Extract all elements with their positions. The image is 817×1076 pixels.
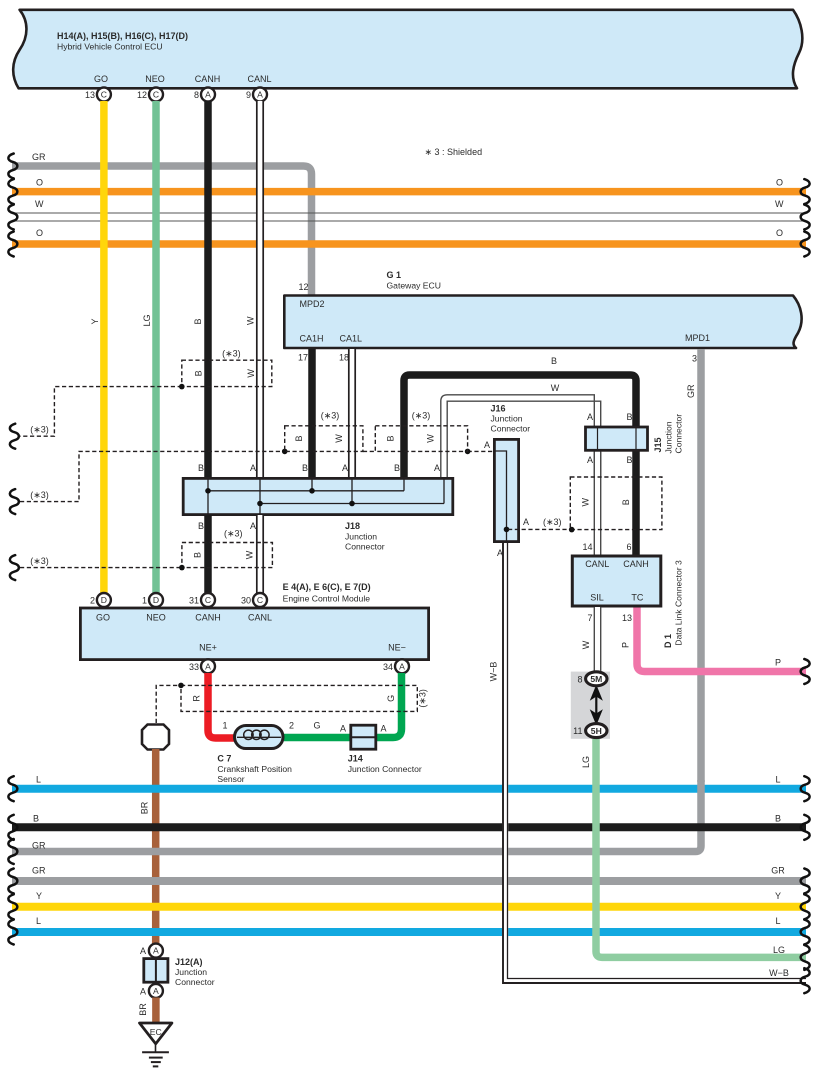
wire B bus: [12, 823, 806, 831]
shield box 2 (CA1H/CA1L): [285, 426, 363, 452]
svg-text:O: O: [776, 228, 783, 238]
J18 junction connector box: [183, 478, 453, 514]
svg-text:GO: GO: [94, 74, 108, 84]
svg-text:(∗3): (∗3): [30, 425, 49, 435]
svg-text:B: B: [394, 463, 400, 473]
svg-text:C: C: [101, 90, 107, 100]
svg-text:B: B: [621, 499, 631, 505]
svg-text:A: A: [257, 90, 263, 100]
pin 9 connector A: [246, 88, 267, 102]
svg-text:A: A: [380, 724, 386, 734]
junction dot J18 B1: [205, 488, 211, 494]
svg-text:B: B: [626, 412, 632, 422]
svg-text:1: 1: [222, 721, 227, 731]
svg-text:Junction: Junction: [345, 532, 377, 542]
svg-text:E 4(A), E 6(C), E 7(D): E 4(A), E 6(C), E 7(D): [283, 582, 371, 592]
svg-text:Junction: Junction: [175, 967, 207, 977]
svg-text:7: 7: [587, 613, 592, 623]
svg-text:EC: EC: [150, 1027, 162, 1037]
svg-text:L: L: [36, 916, 41, 926]
D1 Data Link Connector 3 box: [572, 556, 661, 606]
svg-text:A: A: [205, 90, 211, 100]
svg-text:Y: Y: [775, 891, 781, 901]
shield box 6 (R/G sensor pair): [181, 685, 417, 711]
svg-text:13: 13: [622, 613, 632, 623]
J12(A) junction connector box: [144, 959, 168, 983]
crankshaft position sensor C7 (coil): [235, 726, 284, 749]
pin 33 connector A: [189, 659, 215, 673]
junction dot J18 A1: [257, 501, 263, 507]
svg-text:C: C: [257, 595, 263, 605]
svg-text:R: R: [192, 695, 202, 702]
svg-text:W: W: [551, 383, 560, 393]
svg-text:B: B: [626, 455, 632, 465]
break O right: [801, 179, 810, 204]
svg-text:5M: 5M: [590, 674, 602, 684]
svg-text:Data Link Connector 3: Data Link Connector 3: [674, 560, 684, 646]
wire G green sensor to J14 to NE-: [284, 673, 402, 738]
svg-text:C: C: [153, 90, 159, 100]
svg-text:G 1: G 1: [387, 270, 402, 280]
svg-text:CANL: CANL: [247, 74, 271, 84]
junction dot J18 A2: [349, 501, 355, 507]
svg-text:G: G: [386, 695, 396, 702]
svg-text:(∗3): (∗3): [30, 556, 49, 566]
connector 5H: [573, 724, 607, 738]
svg-text:B: B: [193, 370, 203, 376]
svg-text:G: G: [313, 721, 320, 731]
wire GR MPD1 gray elbow into GR bus: [12, 780, 701, 852]
pin 31 connector C: [189, 593, 215, 607]
J14 junction connector box: [351, 725, 376, 749]
svg-text:Junction: Junction: [664, 421, 674, 453]
svg-text:Y: Y: [90, 318, 100, 324]
svg-text:CANH: CANH: [195, 74, 221, 84]
svg-text:W: W: [580, 497, 590, 506]
svg-text:A: A: [523, 517, 529, 527]
svg-text:A: A: [587, 455, 593, 465]
svg-text:D: D: [101, 595, 107, 605]
svg-text:(∗3): (∗3): [412, 410, 431, 420]
svg-text:A: A: [153, 946, 159, 956]
wire CA1L white vertical: [349, 349, 355, 478]
svg-text:BR: BR: [140, 801, 150, 814]
svg-text:W: W: [581, 640, 591, 649]
svg-text:14: 14: [582, 542, 592, 552]
svg-text:J15: J15: [653, 437, 663, 452]
svg-text:(∗3): (∗3): [321, 410, 340, 420]
shield wire 2 dashed (row y451): [20, 451, 494, 501]
arrows between 5M and 5H: [591, 686, 602, 724]
wire W bus (white pair): [12, 213, 806, 221]
svg-text:J12(A): J12(A): [175, 957, 203, 967]
J16 junction connector box: [493, 439, 519, 543]
svg-text:B: B: [551, 356, 557, 366]
wire GR bus to Gateway MPD2 (gray elbow): [12, 166, 312, 295]
wire R red NE+ to sensor: [208, 673, 234, 738]
svg-text:A: A: [140, 986, 146, 996]
svg-text:31: 31: [189, 596, 199, 606]
svg-text:CANH: CANH: [623, 559, 649, 569]
svg-text:Connector: Connector: [491, 424, 531, 434]
svg-text:Sensor: Sensor: [217, 774, 244, 784]
svg-text:TC: TC: [631, 593, 643, 603]
svg-text:GR: GR: [32, 840, 46, 850]
svg-text:A: A: [140, 946, 146, 956]
svg-text:SIL: SIL: [590, 593, 604, 603]
svg-text:12: 12: [298, 282, 308, 292]
svg-text:3: 3: [692, 354, 697, 364]
svg-text:C 7: C 7: [217, 754, 231, 764]
ground EC triangle: [140, 1023, 172, 1044]
svg-text:J16: J16: [491, 404, 506, 414]
svg-text:Y: Y: [36, 891, 42, 901]
svg-text:J18: J18: [345, 521, 360, 531]
svg-text:B: B: [302, 463, 308, 473]
wire GR bus lower: [12, 877, 806, 885]
svg-text:J14: J14: [348, 754, 363, 764]
svg-text:17: 17: [298, 353, 308, 363]
J15 junction connector box: [586, 427, 648, 450]
svg-text:W: W: [245, 550, 255, 559]
J18 internal B bus line: [208, 479, 444, 515]
shield wire 1 dashed to left break: [20, 387, 182, 437]
wire L bus lower: [12, 928, 806, 936]
octagon shield ground point: [142, 725, 169, 750]
wire O bus 1: [12, 188, 806, 196]
svg-text:B: B: [294, 435, 304, 441]
pin 12 connector C: [137, 88, 163, 102]
breaks left: [8, 776, 17, 801]
svg-text:B: B: [775, 813, 781, 823]
svg-text:Gateway ECU: Gateway ECU: [387, 281, 441, 291]
svg-text:O: O: [36, 178, 43, 188]
svg-text:MPD1: MPD1: [685, 333, 710, 343]
svg-text:A: A: [250, 521, 256, 531]
svg-text:W: W: [425, 434, 435, 443]
svg-text:(∗3): (∗3): [418, 689, 428, 708]
svg-text:9: 9: [246, 90, 251, 100]
shield wire 4 dashed J16 to box5: [508, 528, 572, 530]
break O2 right: [801, 232, 810, 257]
pin 2 connector D: [90, 593, 111, 607]
svg-text:A: A: [250, 463, 256, 473]
svg-text:Connector: Connector: [175, 977, 215, 987]
svg-text:Junction: Junction: [491, 414, 523, 424]
svg-text:W: W: [246, 369, 256, 378]
svg-text:GR: GR: [686, 384, 696, 398]
pin A lower of J12: [140, 984, 163, 998]
shield box 3 (B/W pair): [375, 426, 467, 452]
pin 1 connector D: [142, 593, 163, 607]
junction dot J18 B2: [309, 488, 315, 494]
svg-text:Junction Connector: Junction Connector: [348, 764, 422, 774]
svg-text:A: A: [340, 724, 346, 734]
svg-text:12: 12: [137, 90, 147, 100]
wire BR brown J12 to ground: [152, 998, 160, 1023]
svg-text:5H: 5H: [591, 726, 602, 736]
break GR left: [8, 154, 17, 179]
ground symbol: [142, 1044, 169, 1066]
svg-text:18: 18: [339, 353, 349, 363]
svg-text:CANL: CANL: [585, 559, 609, 569]
svg-text:GR: GR: [32, 152, 46, 162]
svg-text:CANL: CANL: [248, 613, 272, 623]
svg-text:NEO: NEO: [145, 74, 165, 84]
wire CANH black vertical upper: [204, 101, 212, 478]
svg-text:NE+: NE+: [199, 643, 217, 653]
svg-text:30: 30: [241, 596, 251, 606]
pin 34 connector A: [383, 659, 409, 673]
svg-text:MPD2: MPD2: [300, 299, 325, 309]
svg-text:8: 8: [194, 90, 199, 100]
break W right: [801, 205, 810, 230]
break O2 left: [8, 232, 17, 257]
svg-text:W−B: W−B: [489, 662, 499, 682]
svg-text:Hybrid Vehicle Control ECU: Hybrid Vehicle Control ECU: [57, 42, 163, 52]
svg-text:GO: GO: [96, 613, 110, 623]
svg-text:11: 11: [573, 726, 582, 736]
svg-text:(∗3): (∗3): [30, 490, 49, 500]
svg-text:8: 8: [577, 674, 582, 684]
svg-text:2: 2: [289, 721, 294, 731]
svg-text:P: P: [621, 642, 631, 648]
svg-text:NE−: NE−: [388, 643, 406, 653]
wire P pink from D1 TC to right: [637, 607, 806, 672]
svg-text:GR: GR: [32, 866, 46, 876]
svg-text:B: B: [198, 521, 204, 531]
svg-text:A: A: [587, 412, 593, 422]
break O left: [8, 179, 17, 204]
connector split panel 5M/5H: [571, 672, 610, 739]
svg-text:BR: BR: [138, 1003, 148, 1016]
wire LG light green from 5H to bus: [596, 737, 806, 957]
shield box 1 (CANH/CANL at ECU): [182, 360, 272, 386]
svg-text:A: A: [205, 661, 211, 671]
svg-text:H14(A), H15(B), H16(C), H17(D): H14(A), H15(B), H16(C), H17(D): [57, 31, 188, 41]
svg-text:GR: GR: [771, 866, 785, 876]
svg-text:A: A: [342, 463, 348, 473]
svg-text:D: D: [153, 595, 159, 605]
svg-text:W: W: [35, 199, 44, 209]
shield dashed from octagon: [156, 685, 180, 723]
svg-text:O: O: [36, 228, 43, 238]
ECU H14/H15/H16/H17 Hybrid Vehicle Control ECU box: [13, 10, 802, 89]
svg-text:B: B: [198, 463, 204, 473]
svg-text:Connector: Connector: [674, 414, 684, 454]
svg-text:W: W: [775, 199, 784, 209]
break P right: [801, 659, 810, 684]
svg-text:L: L: [775, 916, 780, 926]
svg-text:6: 6: [626, 542, 631, 552]
Gateway ECU G1 box: [284, 296, 801, 349]
svg-text:13: 13: [85, 90, 95, 100]
shield wire 3 dashed to left break: [20, 567, 182, 569]
wire GR MPD1 gray vertical (upper part): [697, 349, 705, 782]
svg-text:CA1L: CA1L: [340, 334, 363, 344]
junction dot in J16: [504, 527, 510, 533]
breaks right: [801, 776, 810, 801]
svg-text:Crankshaft Position: Crankshaft Position: [217, 764, 292, 774]
wire CANL white vertical upper: [257, 101, 263, 478]
svg-text:(∗3): (∗3): [222, 349, 241, 359]
svg-text:33: 33: [189, 662, 199, 672]
svg-text:B: B: [193, 318, 203, 324]
svg-text:1: 1: [142, 596, 147, 606]
svg-text:Engine Control Module: Engine Control Module: [283, 594, 371, 604]
svg-text:B: B: [386, 435, 396, 441]
wire O bus 2: [12, 240, 806, 248]
pin 30 connector C: [241, 593, 267, 607]
wire W white from J18 to J15/D1: [441, 395, 601, 557]
svg-text:W: W: [246, 316, 256, 325]
wire CANH black vertical lower (J18 to ECM): [204, 515, 212, 594]
wire L bus upper: [12, 785, 806, 793]
svg-text:CANH: CANH: [195, 613, 221, 623]
svg-text:(∗3): (∗3): [543, 517, 562, 527]
shield box 5 (W/B above D1): [570, 477, 662, 530]
wire W SIL from D1 to 5M: [594, 607, 600, 673]
svg-text:A: A: [434, 463, 440, 473]
svg-text:LG: LG: [142, 314, 152, 326]
pin A upper of J12: [140, 944, 163, 958]
svg-text:Connector: Connector: [345, 542, 385, 552]
svg-text:O: O: [776, 178, 783, 188]
Engine Control Module box: [80, 608, 428, 660]
svg-text:A: A: [484, 440, 490, 450]
wire Y bus: [12, 903, 806, 911]
wire B thick black from J18 to J15/D1: [404, 375, 636, 557]
svg-text:L: L: [775, 775, 780, 785]
wire BR brown octagon down to J12: [152, 749, 160, 945]
svg-text:B: B: [193, 552, 203, 558]
svg-text:LG: LG: [773, 945, 785, 955]
wire NEO green vertical: [152, 101, 160, 594]
svg-text:NEO: NEO: [146, 613, 166, 623]
wire CA1H black vertical: [308, 349, 316, 478]
svg-text:D 1: D 1: [663, 634, 673, 648]
pin 8 connector A: [194, 88, 215, 102]
svg-text:B: B: [33, 813, 39, 823]
shield box 4 (CANH/CANL at ECM): [182, 543, 273, 568]
svg-text:W−B: W−B: [769, 968, 789, 978]
svg-text:W: W: [334, 434, 344, 443]
wire W-B white-black from J16 down and right: [503, 543, 806, 983]
svg-text:C: C: [205, 595, 211, 605]
svg-text:LG: LG: [581, 756, 591, 768]
svg-text:L: L: [36, 775, 41, 785]
svg-text:A: A: [399, 661, 405, 671]
svg-text:(∗3): (∗3): [224, 529, 243, 539]
svg-text:∗ 3 : Shielded: ∗ 3 : Shielded: [425, 147, 483, 157]
svg-text:34: 34: [383, 662, 393, 672]
wire CANL white vertical lower (J18 to ECM): [257, 515, 263, 594]
pin 13 connector C: [85, 88, 111, 102]
connector 5M: [577, 672, 607, 686]
svg-text:A: A: [153, 986, 159, 996]
svg-text:P: P: [775, 658, 781, 668]
svg-text:2: 2: [90, 596, 95, 606]
wire GO yellow vertical: [100, 101, 108, 594]
break W left: [8, 205, 17, 230]
svg-text:CA1H: CA1H: [300, 334, 324, 344]
